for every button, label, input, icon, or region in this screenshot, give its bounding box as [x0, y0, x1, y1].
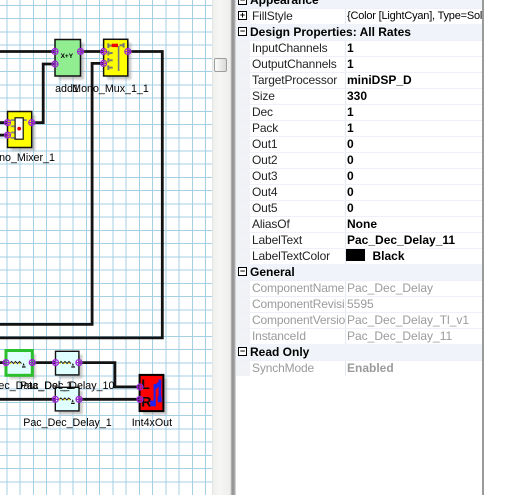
row ComponentVersion	[236, 312, 482, 328]
output block Int4xOut	[140, 375, 167, 415]
row Size	[236, 88, 482, 104]
wire: mux out loop down left	[0, 52, 162, 338]
wire: input to add1 in1	[0, 50, 55, 53]
category General	[236, 264, 482, 280]
svg-text:Mono_Mixer_1: Mono_Mixer_1	[0, 152, 55, 164]
panel splitter border	[229, 0, 236, 495]
grid lines	[0, 0, 212, 495]
wire: add1 out to mux in1	[81, 50, 104, 53]
row Out3	[236, 168, 482, 184]
property grid panel	[236, 0, 482, 495]
category Read Only	[236, 344, 482, 360]
property grid right border	[482, 0, 484, 495]
row TargetProcessor	[236, 72, 482, 88]
row Pack	[236, 120, 482, 136]
category Appearance (partial)	[236, 0, 482, 8]
musical note icon	[150, 379, 162, 406]
canvas vertical scrollbar	[212, 0, 229, 495]
scrollbar thumb	[214, 58, 227, 73]
category Design Properties	[236, 24, 482, 40]
mux Mono_Mux_1_1	[104, 39, 132, 79]
wire: input to mixer in2	[0, 134, 8, 137]
svg-text:X+Y: X+Y	[61, 53, 74, 60]
indent strip	[236, 0, 250, 376]
delay Pac_Dec_Data_Del_1 (selected, green border)	[6, 351, 36, 379]
svg-text:Int4xOut: Int4xOut	[132, 417, 172, 429]
delay Pac_Dec_Delay_10	[56, 351, 83, 378]
svg-text:Mono_Mux_1_1: Mono_Mux_1_1	[72, 83, 149, 95]
adder add1	[55, 40, 84, 80]
wire: delay2 to Int4xOut L	[79, 363, 140, 387]
row OutputChannels	[236, 56, 482, 72]
row ComponentName	[236, 280, 482, 296]
mixer Mono_Mixer_1	[8, 112, 36, 152]
ports (purple circles with cross)	[3, 49, 143, 403]
wire: mixer out to add1 in2	[32, 64, 55, 123]
wire: input to mixer in1	[0, 121, 8, 124]
column divider	[345, 0, 346, 376]
row AliasOf	[236, 216, 482, 232]
wire: mux in2 loop down left	[0, 63, 104, 324]
row Out2	[236, 152, 482, 168]
schematic canvas	[0, 0, 212, 495]
row Out1	[236, 136, 482, 152]
wire: input to delay3	[0, 398, 55, 401]
row FillStyle	[236, 8, 482, 24]
row LabelText	[236, 232, 482, 248]
svg-text:Pac_Dec_Delay_1: Pac_Dec_Delay_1	[23, 417, 112, 429]
svg-text:Pac_Dec_Delay_10: Pac_Dec_Delay_10	[20, 380, 115, 392]
wire: delay3 to Int4xOut R	[79, 398, 140, 401]
row Out4	[236, 184, 482, 200]
row InputChannels	[236, 40, 482, 56]
delay Pac_Dec_Delay_1	[55, 387, 82, 414]
wire: input to green delay	[0, 361, 6, 364]
row LabelTextColor	[236, 248, 482, 264]
row Out5	[236, 200, 482, 216]
row ComponentRevision	[236, 296, 482, 312]
wire: green delay to delay2	[32, 361, 55, 364]
row InstanceId	[236, 328, 482, 344]
row Dec	[236, 104, 482, 120]
row SynchMode	[236, 360, 482, 376]
